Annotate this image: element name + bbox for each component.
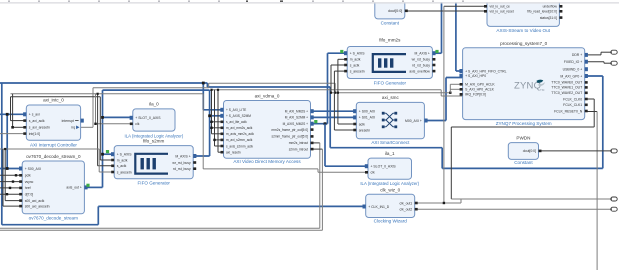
svg-text:underflow: underflow [543,5,558,9]
svg-text:ila_1: ila_1 [385,151,395,156]
svg-text:vid_io_out_reset: vid_io_out_reset [490,10,514,14]
svg-text:TM: TM [540,88,545,92]
svg-text:FCLK_CLK0: FCLK_CLK0 [563,97,582,101]
svg-text:ila_0: ila_0 [149,102,159,107]
port DDR external [611,50,617,54]
svg-text:Constant: Constant [514,160,533,165]
wire ila_0 clk [95,94,97,124]
svg-text:s_axi_aclk: s_axi_aclk [29,119,45,123]
svg-text:M_AXIS +: M_AXIS + [175,154,190,158]
svg-text:mm2s_introut: mm2s_introut [289,141,308,145]
svg-text:pclk: pclk [25,174,31,178]
wire clk_out2 to external [415,208,611,210]
svg-text:s_aresetn: s_aresetn [350,69,365,73]
svg-text:d[7:0]: d[7:0] [25,193,34,197]
port clk_out1 external [611,197,617,201]
svg-text:status[31:0]: status[31:0] [540,16,557,20]
AXI Interrupt Controller axi_intc_0 [23,98,84,148]
svg-text:m_axi_s2mm_aclk: m_axi_s2mm_aclk [226,138,253,142]
svg-text:+ S00_AXI: + S00_AXI [359,110,375,114]
svg-text:FCLK_CLK1: FCLK_CLK1 [563,103,582,107]
svg-text:ZYNQ7 Processing System: ZYNQ7 Processing System [496,121,552,126]
svg-text:+ S00_AXI: + S00_AXI [25,167,41,171]
svg-text:intr[1:0]: intr[1:0] [29,132,40,136]
wire ov7670 s00_axi_aresetn [2,149,4,206]
wire mm2s_introut [311,142,320,144]
wire irq rail [81,126,93,128]
svg-text:M00_AXI +: M00_AXI + [405,119,422,123]
svg-text:+ CLK_IN1_D: + CLK_IN1_D [368,205,390,209]
svg-text:S_AXI_HP0_ACLK: S_AXI_HP0_ACLK [465,88,495,92]
svg-text:aresetn: aresetn [359,128,370,132]
svg-text:fifo_read_level[10:0]: fifo_read_level[10:0] [527,10,557,14]
svg-text:m_axis_mm2s_aclk: m_axis_mm2s_aclk [226,132,254,136]
svg-text:aclk: aclk [359,122,365,126]
svg-text:+ S01_AXI: + S01_AXI [359,116,375,120]
svg-text:FCLK_RESET0_N: FCLK_RESET0_N [554,109,583,113]
svg-text:+ S_AXIS_S2MM: + S_AXIS_S2MM [226,114,251,118]
svg-text:FIFO Generator: FIFO Generator [374,80,407,85]
svg-text:mm2s_frame_ptr_out[5:0]: mm2s_frame_ptr_out[5:0] [272,128,309,132]
svg-text:s00_axi_aresetn: s00_axi_aresetn [25,204,50,208]
svg-text:dout[0:0]: dout[0:0] [523,149,536,153]
wire fifo_mm2s s_aresetn / smc aresetn [333,71,335,130]
wire smc M00_AXI to ZYNQ S_AXI_HP0 [424,120,446,122]
wire vdma M_AXI_S2MM to smc S01_AXI [311,116,357,118]
wire gray reset rail left [0,148,99,150]
wire ila_1 clk [202,94,204,169]
AXIS-Stream to Video Out v_axi4s_vid_out_0 [484,0,562,33]
svg-text:+ SLOT_0_AXIS: + SLOT_0_AXIS [135,116,161,120]
ZYNQ logo [514,80,545,92]
svg-text:M_AXI_S2MM +: M_AXI_S2MM + [285,116,308,120]
wire axis_out net (camera stream) [87,186,103,188]
wire GP0 tap intc s_axi / ov7670 S00_AXI [6,114,8,168]
svg-text:s_aresetn: s_aresetn [117,170,132,174]
svg-text:axis_overflow: axis_overflow [409,69,430,73]
svg-text:TTC0_WAVE1_OUT: TTC0_WAVE1_OUT [551,86,582,90]
svg-text:clk: clk [371,171,375,175]
svg-text:dout[0:0]: dout[0:0] [388,9,402,13]
svg-text:clk_wiz_0: clk_wiz_0 [380,188,400,193]
svg-text:wr_rst_busy: wr_rst_busy [412,58,431,62]
wire vdma M_AXI_MM2S to smc S00_AXI [311,110,357,112]
svg-text:+ S_AXI_HP0: + S_AXI_HP0 [465,74,486,78]
wire rail left gray [11,93,204,95]
wire fifo_mm2s M_AXIS up to video out [432,52,441,54]
svg-text:fifo_s2mm: fifo_s2mm [143,139,164,144]
toolbar strip on top [0,0,619,2]
constant PWDN [508,136,541,166]
svg-text:m_aclk: m_aclk [117,158,128,162]
svg-text:vsync: vsync [25,180,34,184]
svg-text:m_axi_mm2s_aclk: m_axi_mm2s_aclk [226,126,253,130]
wire GP0 tap to vdma S_AXI_LITE [202,83,204,110]
svg-text:s2mm_introut: s2mm_introut [289,147,308,151]
svg-text:ov7670_decode_stream: ov7670_decode_stream [29,215,78,220]
svg-text:href: href [25,186,31,190]
svg-text:ILA (Integrated Logic Analyzer: ILA (Integrated Logic Analyzer) [360,181,419,186]
wire intc intr [0,133,26,135]
svg-text:+ SLOT_0_AXIS: + SLOT_0_AXIS [371,165,397,169]
svg-text:FIFO Generator: FIFO Generator [137,180,170,185]
svg-text:axi_intc_0: axi_intc_0 [43,98,64,103]
svg-text:s2mm_frame_ptr_out[5:0]: s2mm_frame_ptr_out[5:0] [272,135,309,139]
wire vdma clock cluster [211,90,213,134]
svg-text:axi_vdma_0: axi_vdma_0 [255,93,280,98]
svg-text:TTC0_WAVE2_OUT: TTC0_WAVE2_OUT [551,91,582,95]
wire rail left black [11,96,101,98]
wire M_AXI_GP0 band (GP0 master routing) [0,82,207,84]
wire axi_intc s_axi [0,113,26,115]
svg-text:clk: clk [135,122,139,126]
svg-text:irq: irq [71,126,75,130]
ILA ila_0 [125,102,184,139]
svg-text:s_aclk: s_aclk [117,164,127,168]
wire ov7670 href [0,187,22,189]
svg-text:AXI SmartConnect: AXI SmartConnect [371,140,410,145]
svg-text:axis_out +: axis_out + [66,186,82,190]
wire constant dout to vid_io_out_reset [406,10,488,12]
svg-text:s_axi_aresetn: s_axi_aresetn [29,126,50,130]
wire ov7670 pclk [0,174,22,176]
svg-text:m_aclk: m_aclk [350,58,361,62]
wire clk rail R2 [331,92,450,94]
svg-text:rd_rst_busy: rd_rst_busy [173,167,191,171]
svg-text:DDR +: DDR + [572,53,582,57]
svg-text:PWDN: PWDN [516,136,530,141]
svg-text:M_AXI_GP0 +: M_AXI_GP0 + [560,74,582,78]
FIFO Generator fifo_mm2s [344,38,436,86]
wire intc s_axi_aclk [10,97,12,121]
svg-text:s_aclk: s_aclk [350,63,360,67]
svg-text:M_AXI_GP0_ACLK: M_AXI_GP0_ACLK [465,83,495,87]
wire clk distribution vertical [443,6,445,203]
svg-text:TTC0_WAVE0_OUT: TTC0_WAVE0_OUT [551,81,582,85]
svg-text:clk_out1: clk_out1 [400,201,413,205]
svg-text:+ S_AXIS: + S_AXIS [117,153,133,157]
wire DDR to external [585,54,601,56]
svg-text:M_AXI_MM2S +: M_AXI_MM2S + [285,110,308,114]
svg-text:s00_axi_aclk: s00_axi_aclk [25,199,45,203]
svg-text:+ S_AXI_LITE: + S_AXI_LITE [226,108,246,112]
ZYNQ7 Processing System processing_system7_0 [459,41,588,126]
Clocking Wizard clk_wiz_0 [363,188,418,224]
svg-text:+ S_AXIS: + S_AXIS [350,52,366,56]
svg-text:rd_rst_busy: rd_rst_busy [412,63,430,67]
svg-text:vid_io_out_ce: vid_io_out_ce [490,5,511,9]
wire ov7670 s00_axi_aclk [4,149,6,201]
svg-text:M_AXIS +: M_AXIS + [415,52,430,56]
wire intc s_axi_aresetn [12,94,14,128]
wire fifo_s2mm s_aresetn [98,149,100,172]
wire clk rail R1 [212,89,442,91]
wire fifo_mm2s m_aclk / smc aclk [337,59,339,124]
svg-text:interrupt: interrupt [62,119,74,123]
AXI SmartConnect axi_smc [353,95,428,145]
svg-text:+ s_axi: + s_axi [29,113,40,117]
svg-text:M_AXIS_MM2S +: M_AXIS_MM2S + [283,122,309,126]
wire PWDN dout to external [539,150,612,152]
node green markers [340,50,343,53]
AXI Video Direct Memory Access axi_vdma_0 [220,93,313,164]
svg-text:axi_smc: axi_smc [382,95,400,100]
wire ext clock to clocking wizard [2,224,99,226]
wire FIXED_IO to external [585,61,604,63]
wire ov7670 S00_AXI [0,168,22,170]
wire left edge AXI vertical [1,83,3,225]
svg-text:fifo_mm2s: fifo_mm2s [379,38,401,43]
svg-text:processing_system7_0: processing_system7_0 [500,41,547,46]
wire s2mm_introut [311,148,323,150]
svg-text:Clocking Wizard: Clocking Wizard [374,219,408,224]
wire FCLK_RESET0_N [585,111,597,113]
wire to ZYNQ S_AXI_HP0_FIFO_CTRL [455,0,457,71]
svg-text:AXI Video Direct Memory Access: AXI Video Direct Memory Access [233,159,301,164]
svg-text:s_axis_s2mm_aclk: s_axis_s2mm_aclk [226,144,253,148]
wire fifo_s2mm m_aclk [99,97,101,160]
ov7670_decode_stream_0 [19,154,88,220]
svg-text:ILA (Integrated Logic Analyzer: ILA (Integrated Logic Analyzer) [125,133,184,138]
svg-text:FIXED_IO +: FIXED_IO + [564,60,582,64]
wire fifo_s2mm s_aclk [97,94,99,166]
svg-text:Constant: Constant [381,20,400,25]
svg-text:+ S_AXI_HP0_FIFO_CTRL: + S_AXI_HP0_FIFO_CTRL [465,69,506,73]
wire vid_io_out_ce [444,5,487,7]
ILA ila_1 [360,151,419,186]
wire M_AXIS_MM2S to fifo_mm2s / ila_1 [311,123,328,125]
wire FCLK_CLK0 route [585,98,595,100]
svg-text:s_axi_lite_aclk: s_axi_lite_aclk [226,120,247,124]
svg-text:IRQ_F2P[0:0]: IRQ_F2P[0:0] [465,93,486,97]
svg-text:wr_rst_busy: wr_rst_busy [172,161,191,165]
port FIXED_IO external [611,61,617,65]
wire ov7670 vsync [0,181,22,183]
svg-text:USBIND_0 +: USBIND_0 + [563,68,583,72]
wire clk_out1 to external [451,198,611,200]
constant const0 [375,0,408,25]
port clk_out2 external [611,207,617,211]
svg-text:ov7670_decode_stream_0: ov7670_decode_stream_0 [26,154,81,159]
svg-text:AXI Interrupt Controller: AXI Interrupt Controller [30,143,77,148]
svg-text:axi_resetn: axi_resetn [226,151,241,155]
FIFO Generator fifo_s2mm [111,139,196,186]
port PWDN external [611,149,617,153]
svg-text:clk_out2: clk_out2 [400,208,413,212]
svg-text:AXIS-Stream to Video Out: AXIS-Stream to Video Out [496,28,550,33]
wire ov7670 d[7:0] [0,193,22,195]
wire fifo_mm2s s_aclk [331,64,347,66]
